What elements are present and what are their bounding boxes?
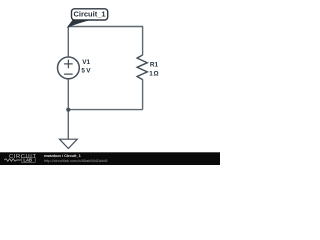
svg-text:V: V: [86, 68, 91, 75]
svg-text:LAB: LAB: [23, 157, 32, 162]
svg-text:Circuit_1: Circuit_1: [73, 10, 105, 19]
svg-text:Ω: Ω: [154, 71, 159, 78]
svg-text:http://circuitlab.com/c/88ab58: http://circuitlab.com/c/88ab58d2ddd8: [44, 158, 108, 163]
svg-text:R1: R1: [150, 62, 159, 69]
svg-text:V1: V1: [82, 59, 90, 66]
svg-text:5: 5: [81, 68, 85, 75]
